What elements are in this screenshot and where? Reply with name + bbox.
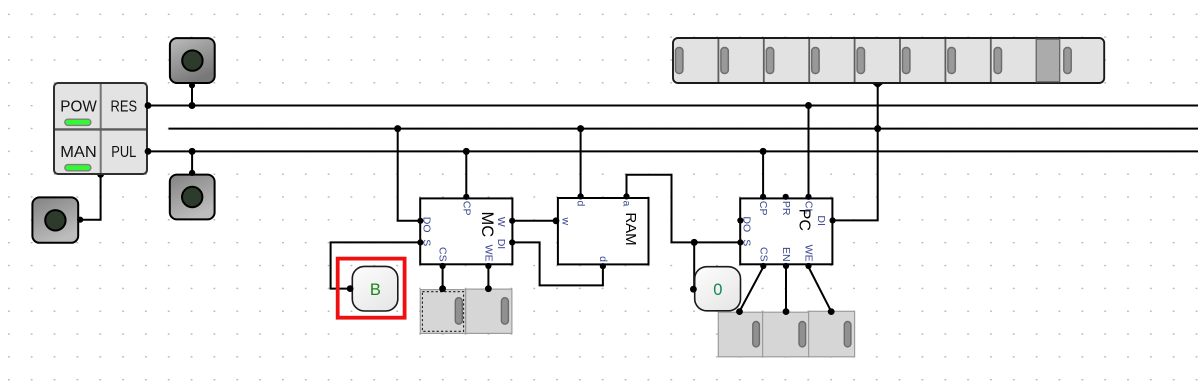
wire switchbank to DATA and PC DI	[834, 86, 878, 221]
junction PUL / button S2	[189, 148, 196, 155]
wire net PUL horizontal	[148, 150, 1198, 152]
pins PC	[737, 194, 835, 269]
LED MAN on	[65, 165, 91, 171]
junction PUL / PC CP	[760, 148, 767, 155]
svg-text:DI: DI	[495, 239, 507, 250]
pin PUL out	[145, 148, 152, 155]
block PC	[737, 194, 835, 269]
svg-text:MAN: MAN	[60, 144, 97, 161]
wire DATA to RAM d	[580, 129, 582, 197]
wire lamp B to MC S	[331, 242, 421, 288]
svg-text:PUL: PUL	[111, 144, 136, 161]
svg-text:CP: CP	[460, 201, 472, 216]
button S2 (pulse)	[170, 170, 215, 220]
svg-text:d: d	[597, 256, 609, 262]
svg-text:MC: MC	[478, 211, 496, 237]
fuse F2	[466, 285, 512, 333]
svg-text:W: W	[495, 217, 507, 227]
svg-text:CS: CS	[437, 247, 449, 262]
svg-text:POW: POW	[60, 99, 97, 116]
wire RES to PC CL	[808, 106, 810, 197]
switch bank cell dividers	[718, 39, 990, 82]
wire DATA to MC DO	[398, 129, 421, 221]
block MC	[417, 194, 515, 269]
control panel POW/RES/MAN/PUL	[54, 83, 151, 174]
svg-text:0: 0	[713, 281, 722, 299]
block RAM	[553, 193, 649, 269]
fuse F1 (selected, dotted)	[420, 285, 465, 333]
svg-text:B: B	[370, 281, 381, 299]
svg-text:a: a	[621, 201, 633, 207]
junction RES / button S1	[189, 102, 196, 109]
fuse F3	[718, 308, 762, 357]
junction DATA / MC DO	[394, 125, 401, 132]
dark segment	[1036, 39, 1060, 82]
button S3 (manual)	[32, 197, 83, 242]
svg-text:DI: DI	[815, 215, 827, 226]
wire PC WE to fuse F5	[809, 267, 832, 311]
svg-text:WE: WE	[803, 245, 815, 262]
wire node to lamp 0	[693, 242, 695, 289]
wire MC W to RAM w	[512, 220, 558, 222]
lamp B (selected, red box)	[338, 259, 405, 318]
wire PUL to MC CP	[465, 151, 467, 196]
pins MC	[417, 194, 515, 269]
switch bank (9 slide switches)	[673, 38, 1104, 88]
svg-text:CP: CP	[757, 201, 769, 216]
junction DATA / switchbank	[874, 125, 881, 132]
wire button S1 to RES	[191, 85, 193, 106]
wire MC CS to fuse F1	[442, 267, 444, 289]
junction PUL / MC CP	[463, 148, 470, 155]
wire MC WE to fuse F2	[487, 267, 489, 289]
fuse F5	[809, 308, 855, 357]
svg-text:WE: WE	[483, 245, 495, 262]
wire PC CS to fuse F3	[740, 267, 764, 311]
svg-text:RAM: RAM	[622, 212, 639, 245]
wire panel bottom to button S3	[80, 174, 101, 219]
svg-text:w: w	[560, 217, 572, 226]
wire RAM a to PC S	[627, 175, 740, 243]
svg-text:EN: EN	[780, 247, 792, 262]
wire net DATA horizontal (middle)	[169, 128, 1198, 130]
svg-text:PR: PR	[780, 201, 792, 216]
junction panel bottom pin	[97, 171, 104, 178]
fuse F4	[763, 308, 809, 357]
svg-text:CL: CL	[803, 201, 815, 215]
pin switchbank out	[872, 84, 883, 89]
wire PC EN to fuse F4	[785, 267, 787, 311]
junction RES / PC CL	[805, 102, 812, 109]
junction DATA / RAM d	[577, 125, 584, 132]
wire net RES horizontal	[148, 105, 1198, 107]
LED POW on	[65, 119, 91, 125]
wire PUL to PC CP	[762, 151, 764, 196]
wire MC DI to RAM d bottom	[512, 242, 603, 285]
wire button S2 to PUL	[191, 151, 193, 173]
svg-text:CS: CS	[757, 247, 769, 262]
switch bank sliders	[676, 48, 1072, 74]
junction net a / lamp 0	[691, 239, 698, 246]
pins RAM	[553, 193, 630, 269]
button S1 (reset)	[170, 38, 215, 88]
svg-text:RES: RES	[111, 99, 138, 116]
pin RES out	[145, 102, 152, 109]
svg-text:d: d	[575, 201, 587, 207]
lamp 0	[690, 267, 741, 311]
